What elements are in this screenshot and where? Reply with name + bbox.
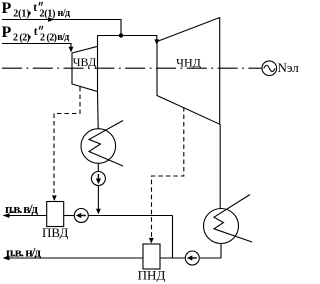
wire: extraction steam ЧНД to ПНД (dashed) [149,107,184,244]
svg-text:t: t [33,2,37,14]
label: P2 (2), t''2 (2)в/д [2,24,70,43]
condenser heat exchanger circle [204,209,239,244]
wire: crossover pipe ЧВД exhaust to ЧНД inlet [98,36,160,46]
wire: п.в. н/д outflow to left [3,256,144,261]
label: P2(1), t''2(1) н/д [2,0,71,19]
svg-text:2(1): 2(1) [40,9,56,20]
wire: ЧНД exhaust down to condenser [219,124,221,208]
pump: condensate pump (left arrow) [185,251,199,265]
generator sine symbol [264,65,275,71]
svg-text:ПНД: ПНД [138,268,166,283]
heat exchanger zigzag [89,121,123,167]
generator circle [262,61,277,76]
wire: steam line 2 (в/д) into ЧВД inlet [2,44,73,53]
wire: п.в. в/д outflow to left [3,213,47,218]
svg-text:,: , [28,27,32,42]
turbine LP cylinder ЧНД [157,18,220,125]
svg-text:ЧВД: ЧВД [73,55,97,69]
wire: condensate from condenser bottom [200,244,221,259]
svg-text:P: P [2,0,12,17]
shaft centerline (dash-dot) [2,67,262,69]
node: mixing junction on crossover [119,33,123,37]
pump: feed pump в/д (left arrow) [74,209,88,223]
svg-text:п.в. н/д: п.в. н/д [6,245,41,260]
heat exchanger (drain cooler) circle [81,129,116,164]
svg-text:t: t [34,26,38,38]
svg-text:в/д: в/д [57,32,69,43]
wire: riser connecting н/д line to в/д feed line [172,216,174,259]
wire: heat exchanger to drain pump [97,163,99,171]
wire: pump to ПВД heater [64,215,75,217]
heater ПВД box [47,202,64,227]
svg-text:ЧНД: ЧНД [176,56,201,70]
wire: pump to ПНД heater [160,257,185,259]
turbine HP cylinder ЧВД [72,36,98,92]
condenser cooling water zigzag [214,195,252,243]
svg-text:2 (2): 2 (2) [40,33,57,44]
wire: feed water line в/д from riser through junction to pump [88,215,172,217]
wire: extraction steam ЧВД to ПВД (dashed) [52,87,80,201]
wire: ЧВД exhaust drain down to heat exchanger [97,92,100,129]
svg-text:,: , [28,3,32,18]
svg-text:ПВД: ПВД [42,225,69,240]
svg-text:Nэл: Nэл [278,60,300,75]
wire: drain down to feed line with arrow [96,186,101,215]
svg-text:п.в. в/д: п.в. в/д [5,201,38,216]
svg-text:н/д: н/д [58,8,71,19]
svg-text:P: P [2,24,12,41]
heater ПНД box [143,244,160,269]
pump: drain pump (down arrow) [91,172,105,186]
wire: steam line 1 (н/д) horizontal with right arrow, down to mixing node [2,17,121,35]
